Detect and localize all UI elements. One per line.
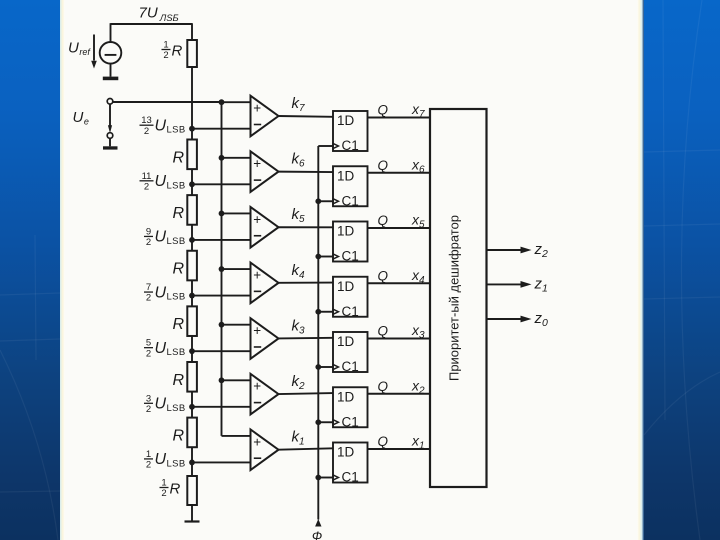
label x1	[411, 433, 425, 452]
svg-text:C1: C1	[342, 193, 359, 208]
wire + input of comparator k7	[222, 101, 251, 103]
svg-text:k7: k7	[292, 95, 306, 114]
svg-text:2: 2	[146, 404, 151, 415]
wire + input of comparator k4	[222, 268, 251, 270]
wire clock stub to flip-flop U1	[318, 477, 333, 479]
wire + input of comparator k5	[222, 212, 251, 214]
arrow Uref direction	[91, 35, 97, 69]
wire top rail from Uref to half-R resistor	[111, 23, 193, 42]
label R2	[173, 205, 185, 222]
resistor R3	[187, 251, 197, 281]
label Uref	[68, 40, 91, 58]
op-amp comparator k4	[251, 263, 279, 304]
svg-text:LSB: LSB	[167, 292, 186, 303]
wire clock stub to flip-flop U6	[318, 200, 333, 202]
node Ue bus to k7	[219, 99, 225, 105]
svg-text:C1: C1	[342, 138, 359, 153]
op-amp comparator k2	[251, 374, 279, 415]
node Ue bus to k4	[219, 266, 225, 272]
svg-text:LSB: LSB	[167, 180, 186, 191]
label R5	[173, 372, 185, 389]
svg-text:1D: 1D	[337, 445, 355, 460]
svg-text:1D: 1D	[337, 224, 355, 239]
svg-text:C1: C1	[342, 359, 359, 374]
svg-text:+: +	[253, 212, 261, 227]
svg-text:R: R	[172, 43, 183, 60]
wire Q output of U5 to x5	[368, 227, 431, 229]
label z2	[534, 241, 549, 260]
svg-text:+: +	[253, 267, 261, 282]
svg-text:R: R	[170, 481, 181, 498]
label 11/2 ULSB	[140, 171, 186, 193]
wire resistor ladder	[191, 67, 193, 476]
svg-text:R: R	[173, 149, 185, 166]
svg-text:Q: Q	[378, 103, 389, 118]
node clock bus at U2	[315, 419, 321, 425]
wire clock bus vertical	[317, 146, 319, 520]
wire tap to - input of comparator k7	[192, 128, 251, 130]
svg-text:k4: k4	[292, 262, 306, 281]
svg-text:R: R	[173, 372, 185, 389]
svg-text:U: U	[155, 451, 167, 468]
svg-text:z1: z1	[534, 275, 548, 294]
svg-text:1D: 1D	[337, 279, 355, 294]
ground below Ue	[103, 138, 118, 149]
label R4	[173, 316, 185, 333]
op-amp comparator k7	[251, 96, 279, 137]
svg-text:C1: C1	[342, 470, 359, 485]
svg-text:R: R	[173, 316, 185, 333]
flip-flop U7 box	[333, 111, 368, 151]
node clock bus at U6	[315, 198, 321, 204]
svg-text:2: 2	[146, 293, 151, 304]
svg-text:k5: k5	[292, 206, 306, 225]
resistor half-R top	[187, 40, 197, 67]
svg-text:2: 2	[146, 460, 151, 471]
node tap 9/2 ULSB	[189, 237, 195, 243]
flip-flop U2 box	[333, 387, 368, 427]
resistor half-R bottom	[187, 476, 197, 505]
label Q of U5	[378, 213, 389, 228]
wire output z0	[487, 316, 532, 323]
label x4	[411, 267, 425, 286]
svg-text:R: R	[173, 427, 185, 444]
svg-text:k2: k2	[292, 373, 306, 392]
clock input arrow	[315, 519, 321, 527]
ground below ladder	[185, 505, 200, 522]
label Phi clock	[312, 529, 322, 540]
net label 7U_LSB	[139, 5, 179, 25]
wire comparator k5 output	[279, 226, 334, 228]
svg-text:LSB: LSB	[167, 236, 186, 247]
node Ue bus to k3	[219, 322, 225, 328]
svg-text:2: 2	[146, 348, 151, 359]
wire + input of comparator k6	[222, 157, 251, 159]
wire Q output of U1 to x1	[368, 448, 431, 450]
label R1	[173, 149, 185, 166]
flip-flop U6 box	[333, 166, 368, 206]
label z0	[534, 310, 549, 329]
op-amp comparator k5	[251, 207, 279, 248]
wire comparator k2 output	[279, 393, 334, 394]
resistor R4	[187, 306, 197, 336]
label 1D of flip-flop U6	[337, 168, 355, 183]
pin C1 wedge of flip-flop U2	[333, 414, 359, 429]
svg-text:LSB: LSB	[167, 403, 186, 414]
wire + input of comparator k2	[222, 379, 251, 381]
svg-text:R: R	[173, 205, 185, 222]
node tap 7/2 ULSB	[189, 293, 195, 299]
node Ue bus to k2	[219, 377, 225, 383]
label 1D of flip-flop U1	[337, 445, 355, 460]
pin C1 wedge of flip-flop U6	[333, 193, 359, 208]
wire clock stub to flip-flop U7	[318, 145, 333, 147]
pin C1 wedge of flip-flop U3	[333, 359, 359, 374]
svg-text:Ф: Ф	[312, 529, 322, 540]
label 13/2 ULSB	[140, 115, 186, 137]
wire Q output of U4 to x4	[368, 282, 431, 284]
label priority encoder	[447, 215, 462, 381]
label Q of U1	[378, 434, 389, 449]
label Q of U7	[378, 103, 389, 118]
pin C1 wedge of flip-flop U5	[333, 249, 359, 264]
svg-text:1D: 1D	[337, 113, 355, 128]
label k4	[292, 262, 306, 281]
op-amp comparator k6	[251, 151, 279, 192]
label R3	[173, 261, 185, 278]
wire tap to - input of comparator k5	[192, 239, 251, 241]
wire + input of comparator k3	[222, 324, 251, 326]
wire tap to - input of comparator k2	[192, 406, 251, 408]
svg-text:z2: z2	[534, 241, 549, 260]
svg-text:2: 2	[146, 237, 151, 248]
wire Ue bus vertical	[221, 101, 223, 436]
svg-text:R: R	[173, 261, 185, 278]
wire Q output of U6 to x6	[368, 172, 431, 174]
label k2	[292, 373, 306, 392]
flip-flop U1 box	[333, 443, 368, 483]
wire Ue to comparator bus	[113, 101, 222, 103]
label 1/2 R top	[162, 40, 183, 62]
label Q of U3	[378, 324, 389, 339]
wire clock stub to flip-flop U2	[318, 421, 333, 423]
svg-text:Ue: Ue	[73, 109, 89, 127]
label Q of U2	[378, 379, 389, 394]
svg-text:Uref: Uref	[68, 40, 91, 58]
resistor R2	[187, 195, 197, 225]
wire tap to - input of comparator k3	[192, 350, 251, 352]
label x3	[411, 322, 425, 341]
node clock bus at U3	[315, 364, 321, 370]
svg-text:2: 2	[144, 126, 149, 137]
wire output z2	[487, 247, 532, 254]
svg-text:k6: k6	[292, 151, 306, 170]
svg-text:2: 2	[161, 488, 166, 499]
svg-text:Q: Q	[378, 158, 389, 173]
node tap 1/2 ULSB	[189, 460, 195, 466]
label x5	[411, 212, 425, 231]
svg-text:+: +	[253, 434, 261, 449]
node tap 13/2 ULSB	[189, 126, 195, 132]
node clock bus at U1	[315, 475, 321, 481]
svg-text:U: U	[155, 173, 167, 190]
label k3	[292, 317, 306, 336]
label 5/2 ULSB	[144, 338, 186, 360]
flip-flop U4 box	[333, 277, 368, 317]
wire output z1	[487, 281, 532, 288]
pin C1 wedge of flip-flop U1	[333, 470, 359, 485]
resistor R1	[187, 140, 197, 170]
wire tap to - input of comparator k1	[192, 461, 251, 463]
wire clock stub to flip-flop U5	[318, 256, 333, 258]
svg-text:+: +	[253, 323, 261, 338]
wire comparator k7 output	[279, 115, 334, 118]
node clock bus at U4	[315, 309, 321, 315]
pin C1 wedge of flip-flop U7	[333, 138, 359, 153]
svg-text:C1: C1	[342, 304, 359, 319]
svg-text:Q: Q	[378, 434, 389, 449]
svg-text:z0: z0	[534, 310, 549, 329]
ground below Uref	[103, 64, 119, 81]
label 1D of flip-flop U7	[337, 113, 355, 128]
svg-text:LSB: LSB	[167, 125, 186, 136]
node Ue bus to k5	[219, 211, 225, 217]
svg-text:LSB: LSB	[167, 458, 186, 469]
svg-text:7UЛЅБ: 7UЛЅБ	[139, 5, 179, 25]
svg-text:U: U	[155, 396, 167, 413]
label Q of U6	[378, 158, 389, 173]
label 1D of flip-flop U3	[337, 334, 355, 349]
label 1D of flip-flop U5	[337, 224, 355, 239]
flip-flop U3 box	[333, 332, 368, 372]
label 3/2 ULSB	[144, 393, 186, 415]
label k5	[292, 206, 306, 225]
wire tap to - input of comparator k6	[192, 183, 251, 185]
svg-text:U: U	[155, 284, 167, 301]
label x7	[411, 101, 425, 120]
label k6	[292, 151, 306, 170]
wire Q output of U2 to x2	[368, 393, 431, 395]
input terminal Ue bottom	[107, 133, 113, 139]
svg-text:C1: C1	[342, 249, 359, 264]
label 7/2 ULSB	[144, 282, 186, 304]
node tap 3/2 ULSB	[189, 404, 195, 410]
resistor R5	[187, 362, 197, 392]
op-amp comparator k1	[251, 429, 279, 470]
resistor R6	[187, 418, 197, 448]
label Ue	[73, 109, 89, 127]
svg-text:1D: 1D	[337, 334, 355, 349]
label k1	[292, 429, 305, 448]
svg-text:Приоритет-ый дешифратор: Приоритет-ый дешифратор	[447, 215, 462, 381]
svg-text:k1: k1	[292, 429, 305, 448]
input terminal Ue top	[107, 99, 113, 105]
wire + input of comparator k1	[222, 435, 251, 437]
label 1/2 ULSB	[144, 449, 186, 471]
node tap 5/2 ULSB	[189, 348, 195, 354]
node clock bus at U5	[315, 254, 321, 260]
svg-text:LSB: LSB	[167, 347, 186, 358]
priority encoder box	[430, 109, 487, 487]
label z1	[534, 275, 548, 294]
svg-text:2: 2	[144, 181, 149, 192]
label R6	[173, 427, 185, 444]
wire comparator k1 output	[279, 448, 334, 449]
pin C1 wedge of flip-flop U4	[333, 304, 359, 319]
arrow Ue direction	[108, 104, 112, 133]
label 1/2 R bottom	[160, 478, 181, 500]
flip-flop U5 box	[333, 222, 368, 262]
svg-text:Q: Q	[378, 379, 389, 394]
wire comparator k6 output	[279, 171, 334, 173]
svg-text:1D: 1D	[337, 168, 355, 183]
svg-text:k3: k3	[292, 317, 306, 336]
svg-text:U: U	[155, 118, 167, 135]
svg-text:2: 2	[163, 50, 168, 61]
svg-text:U: U	[155, 229, 167, 246]
op-amp comparator k3	[251, 318, 279, 359]
label x2	[411, 377, 425, 396]
node tap 11/2 ULSB	[189, 181, 195, 187]
label x6	[411, 156, 425, 175]
label 9/2 ULSB	[144, 226, 186, 248]
wire comparator k4 output	[279, 282, 334, 284]
wire clock stub to flip-flop U3	[318, 366, 333, 368]
svg-text:+: +	[253, 379, 261, 394]
wire clock stub to flip-flop U4	[318, 311, 333, 313]
label 1D of flip-flop U2	[337, 389, 355, 404]
node Ue bus to k6	[219, 155, 225, 161]
voltage source Uref	[100, 42, 122, 64]
svg-text:C1: C1	[342, 414, 359, 429]
svg-text:Q: Q	[378, 268, 389, 283]
wire Q output of U3 to x3	[368, 338, 431, 340]
label 1D of flip-flop U4	[337, 279, 355, 294]
svg-text:+: +	[253, 156, 261, 171]
label k7	[292, 95, 306, 114]
svg-text:+: +	[253, 101, 261, 116]
svg-text:Q: Q	[378, 324, 389, 339]
svg-text:1D: 1D	[337, 389, 355, 404]
wire tap to - input of comparator k4	[192, 295, 251, 297]
label Q of U4	[378, 268, 389, 283]
svg-text:Q: Q	[378, 213, 389, 228]
wire Q output of U7 to x7	[368, 117, 431, 119]
wire comparator k3 output	[279, 337, 334, 340]
svg-text:U: U	[155, 340, 167, 357]
